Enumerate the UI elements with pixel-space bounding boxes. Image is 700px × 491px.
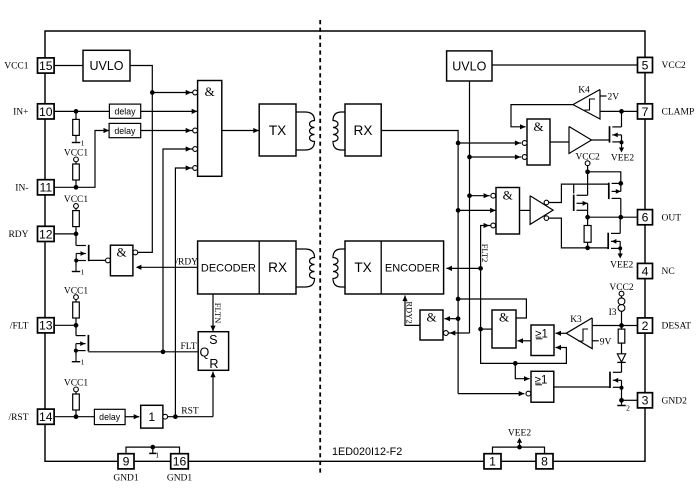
node DESAT junction <box>619 323 624 328</box>
wire inverter output to RST node <box>168 416 213 418</box>
svg-text:1: 1 <box>148 410 155 424</box>
svg-text:1: 1 <box>155 450 159 459</box>
ground 1 below FLT mosfet <box>75 351 77 357</box>
transistor output pullup MOSFET <box>608 183 610 199</box>
transistor output pulldown MOSFET <box>607 233 609 249</box>
svg-text:/RST: /RST <box>8 413 28 423</box>
svg-text:DESAT: DESAT <box>662 322 692 332</box>
latch SR fault latch <box>198 332 228 371</box>
wire RST feedback riser to AND input 5 <box>175 168 192 417</box>
block DECODER with RX <box>198 241 296 294</box>
node fault rail to soft-off or-gate <box>513 361 518 366</box>
svg-text:RX: RX <box>268 260 287 275</box>
wire clamp mosfet drain to CLAMP node <box>621 111 623 127</box>
svg-text:UVLO: UVLO <box>452 59 486 73</box>
isolation barrier dashed line <box>319 20 321 473</box>
node UVLO1 junction to AND input 1 <box>150 90 155 95</box>
svg-text:2: 2 <box>626 404 630 413</box>
svg-text:OUT: OUT <box>662 213 682 223</box>
transistor RDY open-drain NMOS <box>88 245 90 261</box>
wire buffer to clamp mosfet gate <box>592 139 610 141</box>
transistor FLT open-drain NMOS <box>87 335 89 351</box>
svg-text:Q: Q <box>200 346 210 360</box>
gate AND 5-input input filter <box>198 81 222 177</box>
svg-text:11: 11 <box>39 181 52 195</box>
wire VCC1 pin15 to UVLO1 <box>55 65 83 67</box>
pin 15 VCC1 <box>38 58 55 73</box>
node /FLT junction <box>74 323 79 328</box>
resistor RDY pullup <box>75 208 77 210</box>
wire CLAMP node pin7 to K4 <box>600 110 638 112</box>
pin 13 /FLT <box>38 318 55 333</box>
svg-text:6: 6 <box>642 211 649 225</box>
pin 2 DESAT <box>638 318 653 333</box>
svg-text:RX: RX <box>354 123 373 138</box>
comparator K4 clamp 2V <box>573 90 600 120</box>
wire gate drop to predriver pmos <box>573 184 575 193</box>
svg-text:delay: delay <box>114 107 136 117</box>
svg-text:VCC1: VCC1 <box>4 62 29 72</box>
wire IN+ pin10 to delay <box>55 110 109 112</box>
svg-text:9: 9 <box>123 455 130 469</box>
wire K4 output to clamp nand input <box>511 105 573 127</box>
wire diode to desat mosfet drain <box>621 362 623 372</box>
svg-text:CLAMP: CLAMP <box>662 108 695 118</box>
svg-text:IN-: IN- <box>15 183 28 193</box>
node RST junction <box>173 414 178 419</box>
resistor IN- pullup <box>75 162 77 164</box>
wire delay1 to AND input 2 <box>141 110 198 112</box>
power VEE2 below output stage <box>619 248 621 254</box>
wire desat nand output loop to rx bus <box>458 299 526 318</box>
block TX transmitter <box>259 104 296 156</box>
svg-text:VEE2: VEE2 <box>610 260 633 270</box>
comparator K3 desat 9V <box>566 318 592 349</box>
svg-text:VCC1: VCC1 <box>64 195 89 205</box>
svg-text:2V: 2V <box>608 93 620 103</box>
wire RDY2 from nand up into encoder <box>405 296 420 326</box>
wire predriver source to OUT node <box>587 203 589 217</box>
wire /FLT pin13 to pullup node <box>55 324 76 326</box>
wire delay2 to AND input 3 <box>141 130 193 132</box>
wire FLT feedback riser to AND input 4 <box>163 149 193 352</box>
resistor FLT pullup <box>75 300 77 303</box>
block delay lower (IN-) <box>109 123 141 137</box>
node FLT2 to desat nand <box>478 327 483 332</box>
svg-text:2: 2 <box>642 319 649 333</box>
power VEE2 below clamp mosfet <box>621 142 623 148</box>
wire predriver drain to VCC2 rail <box>587 172 589 196</box>
svg-text:RDY: RDY <box>8 230 28 240</box>
svg-text:14: 14 <box>39 410 53 424</box>
gate NAND output control <box>496 188 520 235</box>
ground 1 below RDY mosfet <box>75 260 77 266</box>
svg-text:VCC2: VCC2 <box>609 283 634 293</box>
resistor IN+ pulldown <box>75 111 77 119</box>
resistor RST pullup <box>75 392 77 394</box>
pin 11 IN- <box>38 180 55 195</box>
wire UVLO2 to pin 5 VCC2 <box>492 64 638 66</box>
svg-text:1: 1 <box>81 139 85 148</box>
wire VCC2 rail to upper fet <box>588 172 621 184</box>
node VCC2 rail <box>585 169 590 174</box>
svg-text:NC: NC <box>662 267 675 277</box>
svg-text:13: 13 <box>39 319 53 333</box>
wire FLT2 into encoder <box>446 267 480 269</box>
svg-text:/FLT: /FLT <box>10 321 29 331</box>
terminal VCC1 above RST pullup <box>74 387 79 392</box>
wire driver bottom output to lower rail <box>549 218 609 248</box>
wire rx bus to rdy2 nand <box>456 316 461 321</box>
wire /RST pin14 to delay <box>55 416 94 418</box>
svg-text:VEE2: VEE2 <box>508 428 531 438</box>
wire UVLO2 status bus down <box>469 81 471 333</box>
block delay RST <box>94 409 125 424</box>
svg-text:&: & <box>533 119 543 134</box>
pin 4 NC <box>638 263 653 278</box>
resistor desat blanking <box>621 326 623 330</box>
transformer signal upper <box>296 112 315 150</box>
svg-text:7: 7 <box>642 105 649 119</box>
wire OUT node to pin 6 <box>588 216 638 218</box>
svg-text:5: 5 <box>642 58 649 72</box>
current source I3 <box>618 298 625 305</box>
power VCC2 terminal of driver <box>585 161 590 166</box>
svg-text:ENCODER: ENCODER <box>385 263 440 275</box>
svg-text:IN+: IN+ <box>13 108 28 118</box>
node GND2 junction <box>619 398 624 403</box>
wire desat mosfet body-source tie <box>621 380 623 388</box>
block TX ENCODER secondary <box>345 241 444 294</box>
wire RDY nand output to mosfet gate <box>89 259 106 261</box>
wire rx bus to soft-off or inverted input <box>458 393 524 395</box>
resistor output stage <box>587 217 589 225</box>
svg-text:8: 8 <box>541 455 548 469</box>
svg-text:VCC2: VCC2 <box>575 153 600 163</box>
node RX to output-nand <box>456 208 461 213</box>
svg-text:I3: I3 <box>609 308 617 318</box>
svg-text:&: & <box>426 310 436 325</box>
wire lower fet drain to OUT <box>619 217 621 233</box>
node RX to clamp-nand <box>456 141 461 146</box>
transistor clamp NMOS <box>609 126 611 142</box>
border frame of IC (left, top, right, bottom) <box>45 31 645 461</box>
svg-text:12: 12 <box>39 227 53 241</box>
gate OR soft-off <box>531 371 554 402</box>
wire or output to desat nand <box>517 340 531 342</box>
svg-text:9V: 9V <box>600 337 612 347</box>
ground GND1 symbol <box>152 447 154 453</box>
node lower rail junction <box>585 246 590 251</box>
svg-text:FLTN: FLTN <box>213 303 223 323</box>
wire soft-off or to desat mosfet gate <box>554 386 610 388</box>
wire lower fet body-source tie <box>619 241 621 248</box>
wire UVLO1 output to riser x152 <box>130 66 152 253</box>
wire upper fet source to OUT <box>620 198 622 217</box>
pin 12 RDY <box>38 226 55 241</box>
svg-text:4: 4 <box>642 264 649 278</box>
svg-text:&: & <box>117 245 127 260</box>
wire desat mosfet source to GND2 <box>621 388 623 401</box>
node IN+ pulldown junction <box>74 109 79 114</box>
node FLT2 to encoder <box>478 266 483 271</box>
wire clamp mosfet body-source tie <box>621 135 623 143</box>
block UVLO primary <box>83 50 130 81</box>
svg-text:RST: RST <box>181 407 199 417</box>
wire AND output to TX <box>222 130 259 132</box>
svg-text:3: 3 <box>642 394 649 408</box>
diode desat <box>617 354 625 362</box>
svg-text:VCC1: VCC1 <box>64 379 89 389</box>
wire RDY pin12 to pullup node <box>55 233 76 235</box>
svg-text:VCC1: VCC1 <box>64 149 89 159</box>
svg-text:K3: K3 <box>570 315 582 325</box>
svg-text:&: & <box>499 310 509 325</box>
svg-text:K4: K4 <box>578 86 590 96</box>
svg-text:delay: delay <box>114 126 136 136</box>
wire 2V reference lead <box>600 95 607 97</box>
wire DESAT node to pin 2 <box>622 325 638 327</box>
ground GND2 symbol <box>621 400 623 405</box>
svg-text:15: 15 <box>39 59 53 73</box>
svg-text:UVLO: UVLO <box>89 59 123 73</box>
wire 9V reference lead <box>592 340 599 342</box>
node UVLO2 to clamp-nand <box>467 155 472 160</box>
wire clamp nand to buffer <box>550 141 569 143</box>
wire GND2 to pin 3 <box>622 399 638 401</box>
svg-text:1ED020I12-F2: 1ED020I12-F2 <box>332 446 402 458</box>
wire delay3 to inverter 1 <box>125 416 139 418</box>
svg-text:delay: delay <box>99 412 121 422</box>
wire /RDY from DECODER to RDY nand <box>137 266 197 268</box>
wire RDY mosfet drain <box>75 234 77 246</box>
buffer output driver complementary <box>530 196 553 225</box>
svg-text:VEE2: VEE2 <box>611 154 634 164</box>
node RDY junction <box>74 232 79 237</box>
svg-text:1: 1 <box>81 358 85 367</box>
node GND1 junction <box>150 445 155 450</box>
pin 1 VEE2 <box>484 454 501 469</box>
wire FLT mosfet drain <box>75 325 77 335</box>
wire upper fet body tie <box>620 183 622 191</box>
buffer clamp driver <box>569 127 592 154</box>
wire I3 to DESAT node <box>621 311 623 325</box>
pin 8 VEE2 <box>536 454 553 469</box>
svg-text:1: 1 <box>489 455 496 469</box>
svg-text:GND1: GND1 <box>113 474 139 484</box>
svg-text:S: S <box>209 333 217 347</box>
svg-text:10: 10 <box>39 105 53 119</box>
node IN- pullup junction <box>74 185 79 190</box>
transistor predriver PMOS <box>573 195 575 211</box>
pin 14 /RST <box>38 409 55 424</box>
block UVLO secondary <box>447 51 492 81</box>
svg-text:R: R <box>209 357 218 371</box>
svg-text:DECODER: DECODER <box>201 263 256 275</box>
gate NAND rdy2 <box>420 310 443 340</box>
node /RST junction <box>74 414 79 419</box>
power VCC2 terminal desat <box>619 291 624 296</box>
transistor desat soft-off NMOS <box>609 372 611 388</box>
wire uvlo2 to rdy2 nand inverted <box>448 332 469 334</box>
node OUT junctions <box>585 215 590 220</box>
wire FLTN from DECODER to latch S input <box>212 294 214 331</box>
ground 1 below IN+ resistor <box>75 135 77 137</box>
svg-text:FLT: FLT <box>180 342 196 352</box>
svg-text:1: 1 <box>81 268 85 277</box>
svg-text:GND2: GND2 <box>662 396 688 406</box>
gate OR upper desat <box>531 325 554 356</box>
wire FLT line from latch Q to mosfet gate <box>88 351 198 353</box>
wire RX output bus <box>381 131 458 394</box>
wire IN- pin11 to riser and delay2 <box>55 131 109 188</box>
wire RST riser to latch R input <box>212 372 214 417</box>
terminal VCC1 above IN- pullup <box>74 157 79 162</box>
pin 16 GND1 <box>171 454 189 469</box>
pin 10 IN+ <box>38 104 55 119</box>
svg-text:VCC2: VCC2 <box>662 61 687 71</box>
pin 7 CLAMP <box>638 104 653 119</box>
svg-text:16: 16 <box>173 455 187 469</box>
svg-text:FLT2: FLT2 <box>480 244 490 263</box>
svg-text:TX: TX <box>354 260 371 275</box>
wire output nand to driver <box>520 209 531 211</box>
gate NAND clamp control <box>527 119 550 165</box>
gate NAND rdy indicator <box>110 245 132 276</box>
pin 6 OUT <box>638 210 653 225</box>
terminal VCC1 above RDY pullup <box>74 204 79 209</box>
pin 9 GND1 <box>118 454 134 469</box>
terminal VCC1 above FLT pullup <box>74 295 79 300</box>
svg-text:RDY2: RDY2 <box>404 301 414 323</box>
svg-text:&: & <box>205 84 215 99</box>
block delay upper (IN+) <box>109 104 140 118</box>
power VEE2 rail pins 1 and 8 <box>493 447 545 453</box>
node CLAMP junction <box>619 109 624 114</box>
svg-text:GND1: GND1 <box>167 474 193 484</box>
block RX receiver <box>345 104 381 156</box>
node upper fet drain <box>618 181 623 186</box>
node FLT feedback junction <box>161 349 166 354</box>
wire FLT2 bus <box>481 226 567 364</box>
svg-text:/RDY: /RDY <box>175 257 198 267</box>
transformer signal lower <box>296 249 315 287</box>
node UVLO2 to output-nand <box>467 193 472 198</box>
svg-text:&: & <box>503 188 513 203</box>
block inverter 1 for RST <box>141 405 163 428</box>
gate NAND desat logic <box>492 310 516 348</box>
svg-text:VCC1: VCC1 <box>64 286 89 296</box>
pin 5 VCC2 <box>638 57 653 72</box>
wire K3 output to or gate <box>555 332 566 334</box>
pin 3 GND2 <box>638 393 653 408</box>
svg-text:TX: TX <box>269 123 286 138</box>
wire DESAT node to K3 input <box>592 325 621 327</box>
wire GND1 rail between pins 9 and 16 <box>126 447 180 453</box>
wire driver top output to gates of pullup fets <box>549 184 609 202</box>
